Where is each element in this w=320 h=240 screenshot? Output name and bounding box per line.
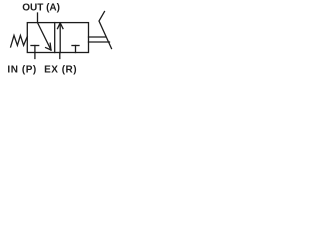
spring return <box>11 35 28 47</box>
valve body outer box <box>27 23 88 53</box>
port stub IN <box>34 53 36 59</box>
svg-text:OUT (A): OUT (A) <box>22 2 60 13</box>
svg-text:EX (R): EX (R) <box>44 65 77 76</box>
position divider <box>54 23 56 53</box>
svg-text:IN (P): IN (P) <box>7 65 36 76</box>
lever link lower bar <box>89 41 110 43</box>
flow path up arrow (right box) <box>59 23 61 52</box>
port stub EX <box>59 53 61 59</box>
blocked port T (left box, IN) <box>31 45 39 47</box>
lever link upper bar <box>89 36 106 38</box>
lever arm with roller fork <box>99 12 112 49</box>
port stub OUT <box>37 13 39 23</box>
background <box>0 0 120 80</box>
blocked port T (right box, EX) <box>72 45 79 47</box>
flow path diagonal arrow (left box) <box>38 23 52 50</box>
